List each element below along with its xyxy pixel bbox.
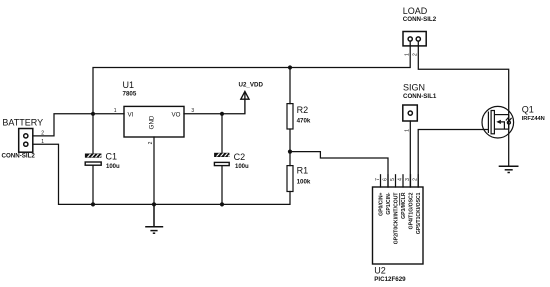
svg-text:U2: U2 [374,265,386,275]
svg-text:Q1: Q1 [522,104,534,114]
node junction dot R2/R1 divider [288,150,292,154]
node junction dot ground bus at U1 GND [152,202,156,206]
power symbol U2_VDD [241,91,249,113]
svg-text:IRFZ44N: IRFZ44N [522,116,545,122]
svg-text:GP3/MCLR: GP3/MCLR [401,192,407,219]
svg-text:GP5/T1CKI/OSC1: GP5/T1CKI/OSC1 [416,192,422,234]
svg-text:100u: 100u [106,164,120,170]
wire C2 bottom [221,166,223,205]
regulator U1 7805 body [124,106,184,137]
wire top bus (VI node: battery+ / C1 / LOAD pin1) [93,41,410,114]
svg-text:LOAD: LOAD [403,6,428,16]
svg-text:C2: C2 [234,152,246,162]
resistor R2 [287,104,293,129]
resistor R1 [287,166,293,192]
svg-text:2: 2 [412,178,418,181]
svg-text:GND: GND [149,115,156,129]
node junction dot VO wire at C2 [220,112,224,116]
svg-text:CONN-SIL1: CONN-SIL1 [403,93,437,100]
connector SIGN CONN-SIL1 [403,105,418,121]
svg-text:U1: U1 [123,80,135,90]
svg-text:PIC12F629: PIC12F629 [374,276,406,283]
wire U1 GND pin down [153,137,155,204]
svg-text:BATTERY: BATTERY [2,118,43,128]
wire C1 bottom [92,166,94,205]
svg-text:7: 7 [375,178,381,181]
ground symbol (Q1 source) [499,166,519,172]
node junction dot battery/C1 on VI wire [91,112,95,116]
wire U2 GP2 stub [395,175,397,187]
wire U2 GP5 to Q1 gate [418,130,488,188]
svg-text:GP2/T0CKI/INT/COUT: GP2/T0CKI/INT/COUT [394,192,400,245]
wire battery pin2 to U1 VI [33,114,124,136]
svg-text:2: 2 [41,131,44,137]
svg-text:6: 6 [382,178,388,181]
wire U1 VO to U2_VDD [184,113,245,115]
transistor Q1 IRFZ44N [482,106,514,138]
wire divider junction to U2 GP1 [290,152,388,187]
wire SIGN pin to U2 GP4 [409,121,411,187]
wire R2 top stub [289,68,291,104]
wire U2 GP1 stub [387,175,389,187]
ground symbol (main rail) [145,204,163,233]
svg-text:100u: 100u [235,164,249,170]
wire U2 GP3 stub [402,175,404,187]
svg-text:470k: 470k [297,118,311,125]
svg-text:CONN-SIL2: CONN-SIL2 [403,16,437,23]
capacitor C1 [85,154,102,166]
svg-text:4: 4 [397,178,403,181]
svg-text:GP0/CIN+: GP0/CIN+ [379,192,385,215]
svg-text:VO: VO [172,112,181,119]
svg-text:CONN-SIL2: CONN-SIL2 [2,153,36,160]
node junction dot ground bus at C2 [220,202,224,206]
svg-text:VI: VI [128,112,134,119]
wire LOAD pin2 to Q1 drain and Q1 source to ground [418,41,508,166]
svg-text:1: 1 [404,53,410,56]
svg-text:1: 1 [404,129,410,132]
svg-text:3: 3 [405,178,411,181]
node junction dot top bus at R2 [288,65,292,69]
svg-text:7805: 7805 [123,91,137,98]
svg-text:C1: C1 [106,151,118,161]
capacitor C2 [214,153,229,166]
svg-text:2: 2 [412,53,418,56]
connector LOAD CONN-SIL2 [403,32,426,46]
wire U2 GP0 stub [380,175,382,187]
wire C2 top [221,114,223,153]
overline for MCLR [399,193,401,206]
wire C1 top [92,114,94,154]
wire R2 bottom to R1 top [289,129,291,166]
connector J BATTERY CONN-SIL2 [19,129,33,153]
svg-text:3: 3 [191,108,194,114]
svg-text:GP4/T1G/OSC2: GP4/T1G/OSC2 [409,192,415,229]
svg-text:GP1/CIN-: GP1/CIN- [386,192,392,214]
svg-text:5: 5 [390,178,396,181]
svg-text:R1: R1 [297,166,309,176]
wire U2 GP4 stub [410,175,412,187]
wire battery pin1 to ground bus / R1 bottom [33,144,290,204]
svg-text:2: 2 [148,141,154,144]
svg-text:1: 1 [41,139,44,145]
wire U2 GP5 stub [417,175,419,187]
IC U2 PIC12F629 body [373,187,424,264]
svg-text:U2_VDD: U2_VDD [239,82,264,89]
svg-text:R2: R2 [297,105,309,115]
svg-text:100k: 100k [297,178,311,185]
svg-text:1: 1 [114,108,117,114]
node junction dot ground bus at C1 [91,202,95,206]
svg-text:SIGN: SIGN [403,82,425,92]
